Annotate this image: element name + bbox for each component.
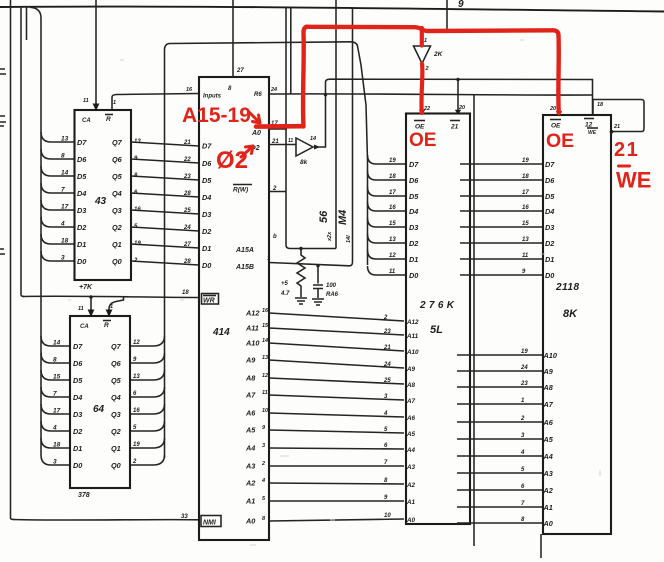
wire left loop vertical (to NMI) — [11, 0, 15, 520]
svg-text:D1: D1 — [202, 244, 211, 253]
svg-text:9: 9 — [522, 269, 526, 275]
wire latch U2 D5 input hook — [41, 370, 70, 380]
red wire inverter drop — [419, 28, 424, 113]
svg-text:NMI: NMI — [203, 520, 217, 527]
svg-text:24: 24 — [183, 225, 191, 231]
wire latch U1 OE pin to CPU pin16 (y94) — [112, 94, 199, 111]
svg-text:A15A: A15A — [235, 247, 254, 254]
svg-text:D7: D7 — [77, 138, 87, 147]
wire EPROM U4 D5 hook — [368, 187, 407, 196]
wire latch U1 D7 input hook — [41, 132, 75, 142]
wire CPU A4 to EPROM — [269, 448, 404, 449]
wire address A6 EPROM to RAM — [457, 421, 543, 423]
wire latch U1 D6 input hook — [41, 149, 75, 159]
svg-text:A4: A4 — [543, 452, 553, 461]
svg-text:Q2: Q2 — [112, 223, 122, 232]
wire EPROM U4 D1 hook — [368, 250, 407, 259]
wire data D5 EPROM to RAM — [460, 195, 542, 197]
svg-text:20: 20 — [549, 106, 556, 112]
svg-text:3: 3 — [262, 443, 265, 449]
svg-text:Q7: Q7 — [111, 342, 122, 351]
wire CPU pin24 long horizontal y94 — [269, 94, 593, 95]
svg-text:18: 18 — [182, 290, 189, 296]
wire data D4 EPROM to RAM — [460, 210, 542, 212]
svg-text:D0: D0 — [409, 271, 418, 280]
svg-text:A9: A9 — [543, 367, 554, 376]
svg-text:2: 2 — [261, 461, 265, 467]
svg-text:WR: WR — [203, 298, 215, 305]
svg-text:Q5: Q5 — [112, 172, 123, 181]
svg-text:21: 21 — [613, 124, 620, 130]
svg-text:D0: D0 — [73, 461, 82, 470]
svg-text:D1: D1 — [77, 240, 86, 249]
svg-text:D7: D7 — [545, 160, 555, 169]
svg-text:3: 3 — [521, 433, 525, 439]
svg-text:D4: D4 — [545, 207, 554, 216]
svg-text:17: 17 — [389, 190, 396, 196]
left margin tick 1 — [0, 69, 6, 74]
svg-text:Q5: Q5 — [111, 376, 122, 385]
svg-text:11: 11 — [78, 306, 84, 312]
svg-text:18: 18 — [522, 174, 529, 180]
svg-text:D3: D3 — [77, 206, 86, 215]
wire CPU clock-in pin27 vertical — [232, 0, 234, 77]
wire data trunk x164 (latch2 Q bus up, over to EPROM data hooks) — [165, 42, 368, 458]
svg-text:A6: A6 — [406, 415, 416, 422]
wire CPU A12 to EPROM — [269, 313, 404, 321]
svg-text:1: 1 — [267, 256, 270, 262]
wire latch U2 CA pin from WR line — [90, 297, 92, 314]
svg-text:28: 28 — [183, 191, 191, 197]
wire data D2 EPROM to RAM — [460, 242, 542, 244]
svg-text:14: 14 — [61, 170, 69, 177]
svg-text:A11: A11 — [245, 324, 259, 333]
svg-text:9: 9 — [262, 425, 266, 431]
resistor R1 4.7K pullup — [299, 247, 302, 250]
svg-text:378: 378 — [78, 492, 90, 499]
svg-text:15: 15 — [522, 221, 529, 227]
svg-text:7: 7 — [521, 501, 525, 507]
svg-text:6: 6 — [521, 484, 525, 490]
svg-text:A6: A6 — [245, 409, 256, 418]
svg-text:2: 2 — [425, 66, 429, 72]
wire CPU A8 to EPROM — [269, 378, 404, 384]
svg-text:21: 21 — [614, 139, 639, 161]
svg-text:Q0: Q0 — [111, 461, 121, 470]
svg-text:A3: A3 — [543, 469, 553, 478]
svg-text:9: 9 — [458, 0, 464, 10]
svg-text:A1: A1 — [245, 497, 255, 506]
wire EPROM U4 D2 hook — [368, 234, 407, 243]
wire data D1 EPROM to RAM — [460, 258, 542, 260]
wire latch U2 D4 input hook — [41, 387, 70, 397]
svg-text:A12: A12 — [406, 319, 419, 326]
wire vertical x336 from top rail to pin2 line — [335, 0, 337, 249]
wire latch U1 Q0 to CPU D0 — [131, 261, 199, 265]
svg-text:7: 7 — [384, 460, 388, 466]
svg-text:D5: D5 — [202, 176, 212, 185]
svg-text:25: 25 — [383, 378, 391, 384]
inverter U5 (phi2 buffer) — [296, 138, 313, 156]
svg-text:A0: A0 — [245, 517, 255, 526]
svg-text:A8: A8 — [245, 374, 256, 383]
svg-text:27: 27 — [236, 68, 244, 74]
svg-text:Q1: Q1 — [112, 240, 122, 249]
wire data D3 EPROM to RAM — [460, 226, 542, 228]
inverter U7 body — [414, 46, 431, 64]
svg-text:D4: D4 — [202, 193, 211, 202]
wire stub x26 — [26, 7, 28, 40]
svg-text:2: 2 — [520, 416, 525, 422]
svg-text:23: 23 — [183, 174, 191, 180]
svg-text:64: 64 — [93, 404, 105, 415]
svg-text:1: 1 — [110, 304, 113, 310]
svg-text:16: 16 — [262, 308, 269, 314]
svg-text:D0: D0 — [545, 271, 554, 280]
svg-text:19: 19 — [389, 158, 396, 164]
svg-text:Q4: Q4 — [112, 189, 122, 198]
svg-text:8: 8 — [384, 478, 388, 484]
svg-text:D4: D4 — [77, 189, 86, 198]
capacitor C1 100 — [316, 264, 319, 267]
svg-text:21: 21 — [450, 124, 459, 131]
wire RAM U6 pin18 stub — [592, 100, 594, 116]
svg-text:13: 13 — [522, 237, 529, 243]
svg-text:A7: A7 — [406, 398, 416, 405]
svg-text:11: 11 — [83, 98, 89, 104]
svg-text:24: 24 — [270, 87, 277, 93]
wire address A3 EPROM to RAM — [457, 472, 543, 474]
svg-text:A6: A6 — [543, 418, 554, 427]
svg-text:A0: A0 — [543, 519, 553, 528]
wire latch U1 Q4 to CPU D4 — [131, 193, 199, 197]
svg-text:OE: OE — [551, 123, 561, 130]
CPU WR boxed label + pin — [202, 294, 219, 305]
wire EPROM U4 D4 hook — [368, 202, 407, 211]
wire latch U1 D5 input hook — [41, 166, 75, 176]
svg-text:18: 18 — [53, 442, 61, 449]
svg-text:14: 14 — [310, 136, 316, 142]
svg-text:CA: CA — [82, 118, 91, 124]
svg-text:D6: D6 — [545, 176, 555, 185]
left margin tick 3 — [0, 249, 5, 254]
svg-text:15: 15 — [262, 323, 269, 329]
wire CPU A5 to EPROM — [269, 430, 404, 433]
wire CPU A9 to EPROM — [269, 360, 404, 368]
svg-text:8: 8 — [61, 153, 65, 160]
wire top-right drop x447 — [446, 0, 448, 30]
wire address A2 EPROM to RAM — [457, 489, 543, 491]
wire address A4 EPROM to RAM — [457, 455, 543, 457]
wire CPU A1 to EPROM — [269, 500, 404, 502]
svg-text:A1: A1 — [543, 503, 553, 512]
svg-text:21: 21 — [183, 140, 191, 146]
svg-text:A4: A4 — [406, 447, 416, 454]
svg-text:12: 12 — [262, 373, 268, 379]
svg-text:A3: A3 — [406, 464, 416, 471]
svg-text:A5: A5 — [245, 426, 256, 435]
svg-text:WE: WE — [616, 168, 651, 193]
wire latch U1 CA pin vertical x96 — [95, 0, 97, 108]
wire WR vertical x21 — [21, 7, 24, 297]
svg-text:56: 56 — [318, 210, 330, 223]
svg-text:A7: A7 — [245, 391, 256, 400]
svg-text:A8: A8 — [406, 382, 416, 389]
svg-text:RA6: RA6 — [326, 292, 339, 298]
svg-text:18: 18 — [597, 102, 604, 108]
svg-text:D1: D1 — [409, 255, 418, 264]
svg-text:D6: D6 — [409, 176, 419, 185]
svg-text:A15B: A15B — [235, 264, 254, 271]
wire CPU A6 to EPROM — [269, 413, 404, 417]
svg-text:2: 2 — [133, 258, 138, 264]
svg-text:7: 7 — [61, 187, 65, 194]
svg-text:A8: A8 — [543, 383, 554, 392]
svg-text:Q4: Q4 — [111, 393, 121, 402]
svg-text:D1: D1 — [73, 444, 82, 453]
svg-text:14l: 14l — [346, 235, 352, 243]
svg-text:16: 16 — [389, 205, 396, 211]
wire CPU A3 to EPROM — [269, 465, 404, 467]
svg-text:13: 13 — [61, 136, 69, 143]
svg-text:A0: A0 — [251, 130, 261, 137]
wire vertical x286 from top rail — [286, 8, 336, 249]
svg-text:12: 12 — [389, 253, 396, 259]
svg-text:D2: D2 — [202, 227, 211, 236]
svg-text:14: 14 — [262, 338, 268, 344]
wire address A5 EPROM to RAM — [457, 438, 543, 440]
svg-text:D6: D6 — [73, 359, 83, 368]
svg-text:A0: A0 — [406, 517, 416, 524]
svg-text:43: 43 — [94, 196, 107, 207]
wire EPROM U4 D7 hook — [368, 155, 407, 164]
svg-text:D5: D5 — [545, 192, 555, 201]
svg-text:D1: D1 — [545, 255, 554, 264]
wire latch U2 Q2 hook to trunk — [130, 421, 165, 431]
red wire riser x303 — [303, 27, 308, 127]
svg-text:19: 19 — [522, 158, 529, 164]
svg-text:4.7: 4.7 — [280, 291, 290, 297]
svg-text:3: 3 — [53, 459, 57, 466]
svg-text:4: 4 — [520, 450, 525, 456]
svg-text:D4: D4 — [409, 207, 418, 216]
svg-text:Q6: Q6 — [112, 155, 123, 164]
wire address A0 EPROM to RAM — [457, 522, 543, 524]
wire CPU A2 to EPROM — [269, 483, 404, 484]
wire address A7 EPROM to RAM — [457, 403, 543, 405]
svg-text:A9: A9 — [406, 366, 416, 373]
wire EPROM U4 D0 hook — [368, 266, 407, 275]
svg-text:R(W): R(W) — [233, 187, 248, 194]
svg-text:D7: D7 — [409, 160, 419, 169]
svg-text:6: 6 — [133, 391, 137, 397]
svg-text:D7: D7 — [73, 342, 83, 351]
svg-text:D5: D5 — [73, 376, 83, 385]
latch U1 body — [75, 110, 132, 280]
wire latch U1 Q3 to CPU D3 — [131, 210, 199, 214]
wire latch U2 Q5 hook to trunk — [130, 370, 165, 380]
svg-text:22: 22 — [183, 157, 191, 163]
svg-text:D2: D2 — [73, 427, 82, 436]
svg-text:D3: D3 — [73, 410, 82, 419]
svg-text:25: 25 — [183, 208, 191, 214]
svg-text:21: 21 — [383, 345, 391, 351]
red wire top run to RAM — [422, 29, 559, 113]
wire latch U2 Q7 hook to trunk — [130, 336, 165, 346]
svg-text:Ø2: Ø2 — [216, 147, 248, 174]
svg-text:A2: A2 — [406, 482, 416, 489]
svg-text:A15-19: A15-19 — [182, 104, 251, 127]
wire address A10 EPROM to RAM — [457, 354, 543, 356]
CPU NMI boxed label — [201, 516, 221, 527]
svg-text:D4: D4 — [73, 393, 82, 402]
wire latch U2 Q4 hook to trunk — [130, 387, 165, 397]
svg-text:A2: A2 — [245, 479, 255, 488]
svg-text:8k: 8k — [300, 159, 308, 166]
wire address A1 EPROM to RAM — [457, 506, 543, 508]
svg-text:8: 8 — [228, 86, 232, 92]
svg-text:D6: D6 — [77, 155, 87, 164]
wire address A8 EPROM to RAM — [457, 386, 543, 388]
wire latch U2 D1 input hook — [41, 438, 70, 448]
svg-text:D3: D3 — [545, 223, 554, 232]
svg-text:D5: D5 — [409, 192, 419, 201]
svg-text:10: 10 — [384, 513, 391, 519]
wire latch U1 Q7 to CPU D7 — [131, 142, 199, 146]
svg-text:14: 14 — [53, 340, 61, 347]
svg-text:5: 5 — [133, 425, 137, 431]
svg-text:16: 16 — [133, 408, 140, 414]
red wire A15 highlight horizontal (pin) — [256, 124, 303, 129]
svg-text:Q3: Q3 — [112, 206, 122, 215]
wire EPROM U4 D3 hook — [368, 218, 407, 227]
svg-text:1: 1 — [424, 38, 427, 44]
svg-text:4: 4 — [383, 411, 388, 417]
wire latch U1 Q5 to CPU D5 — [131, 176, 199, 180]
svg-text:5L: 5L — [430, 324, 443, 336]
svg-text:11: 11 — [262, 390, 268, 396]
svg-text:19: 19 — [134, 241, 141, 247]
svg-text:18: 18 — [61, 238, 69, 245]
svg-text:9: 9 — [384, 495, 388, 501]
svg-text:R6: R6 — [254, 92, 262, 98]
wire EPROM U4 D6 hook — [368, 171, 407, 180]
svg-text:9: 9 — [133, 357, 137, 363]
svg-text:Q6: Q6 — [111, 359, 122, 368]
wire WR horizontal y296 — [23, 296, 199, 297]
svg-text:10: 10 — [262, 408, 268, 414]
svg-text:1: 1 — [521, 398, 525, 404]
wire vertical x290 from top rail — [290, 8, 292, 95]
svg-text:Q7: Q7 — [112, 138, 123, 147]
svg-text:M4: M4 — [337, 210, 349, 225]
wire latch U1 D2 input hook — [41, 217, 75, 227]
svg-text:12: 12 — [133, 340, 140, 346]
svg-text:D0: D0 — [77, 257, 86, 266]
svg-text:3: 3 — [61, 255, 65, 262]
svg-text:13: 13 — [389, 237, 396, 243]
wire CPU A7 to EPROM — [269, 395, 404, 400]
svg-text:100: 100 — [326, 283, 337, 289]
svg-text:16: 16 — [186, 87, 193, 93]
svg-text:11: 11 — [389, 269, 396, 275]
wire address A9 EPROM to RAM — [457, 370, 543, 372]
wire CPU A10 to EPROM — [269, 343, 404, 351]
svg-text:A2: A2 — [543, 486, 553, 495]
wire latch U2 Q1 hook to trunk — [130, 438, 165, 448]
wire CPU pin1 (A15B) to x352 riser — [269, 8, 353, 266]
svg-text:13: 13 — [134, 139, 141, 145]
svg-text:24: 24 — [520, 365, 528, 371]
svg-text:18: 18 — [389, 174, 396, 180]
svg-text:19: 19 — [521, 349, 528, 355]
svg-text:CA: CA — [80, 324, 89, 330]
svg-text:A5: A5 — [543, 435, 554, 444]
wire latch U2 Q0 hook to trunk — [130, 455, 165, 465]
svg-text:4: 4 — [60, 221, 65, 228]
svg-text:R: R — [104, 322, 109, 329]
svg-text:+5: +5 — [281, 281, 289, 287]
wire inverter U5 output up to y79 rail and over to memory — [314, 145, 320, 150]
svg-text:2118: 2118 — [555, 282, 579, 293]
svg-text:D3: D3 — [409, 223, 418, 232]
svg-text:8: 8 — [521, 517, 525, 523]
svg-text:11: 11 — [522, 253, 529, 259]
svg-text:4: 4 — [261, 478, 265, 484]
svg-text:27: 27 — [183, 242, 191, 248]
svg-text:A10: A10 — [406, 349, 419, 356]
svg-text:13: 13 — [262, 355, 268, 361]
svg-text:Q1: Q1 — [111, 444, 121, 453]
svg-text:33: 33 — [181, 514, 188, 520]
svg-text:17: 17 — [61, 204, 69, 211]
CPU U3 body — [199, 77, 269, 540]
svg-text:23: 23 — [520, 381, 528, 387]
svg-text:OE: OE — [409, 130, 436, 151]
svg-text:28: 28 — [183, 259, 191, 265]
svg-text:A12: A12 — [245, 309, 259, 318]
svg-text:23: 23 — [383, 329, 391, 335]
svg-text:276K: 276K — [419, 300, 455, 311]
svg-text:A10: A10 — [543, 351, 557, 360]
svg-text:A5: A5 — [406, 431, 416, 438]
svg-text:OE: OE — [546, 130, 574, 152]
wire latch U1 D0 input hook — [41, 251, 75, 261]
svg-text:1: 1 — [113, 100, 116, 106]
wire data D6 EPROM to RAM — [460, 179, 542, 181]
svg-text:D2: D2 — [77, 223, 86, 232]
svg-text:17: 17 — [522, 190, 529, 196]
wire data D7 EPROM to RAM — [460, 163, 542, 165]
svg-text:D3: D3 — [202, 210, 211, 219]
wire latch U2 D3 input hook — [41, 404, 70, 414]
svg-text:WE: WE — [588, 130, 597, 136]
svg-text:A4: A4 — [245, 444, 255, 453]
RAM U6 body — [543, 115, 611, 534]
svg-text:A7: A7 — [543, 400, 554, 409]
wire D-input bus trunk x41 — [30, 7, 41, 455]
svg-text:8: 8 — [53, 357, 57, 364]
svg-text:Q0: Q0 — [112, 257, 122, 266]
svg-text:D2: D2 — [545, 239, 554, 248]
svg-text:7: 7 — [53, 391, 57, 398]
svg-text:5: 5 — [262, 496, 266, 502]
wire top rail — [0, 7, 664, 12]
wire NMI horizontal — [13, 519, 199, 522]
svg-text:b: b — [273, 234, 277, 240]
svg-text:24: 24 — [383, 362, 391, 368]
svg-text:D2: D2 — [409, 239, 418, 248]
